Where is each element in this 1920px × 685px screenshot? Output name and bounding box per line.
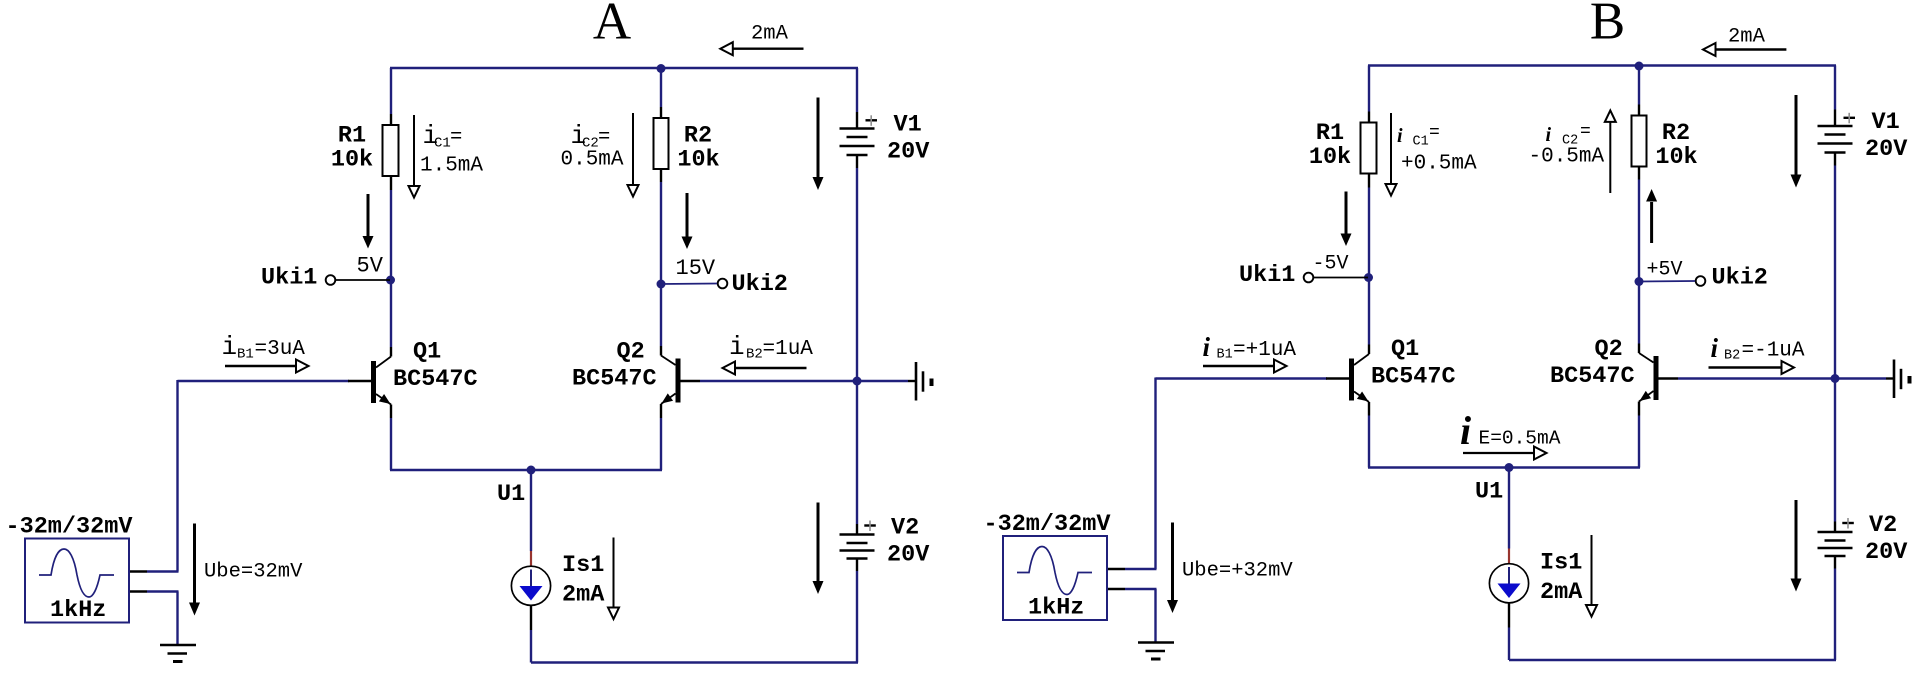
- svg-text:-5V: -5V: [1313, 253, 1349, 276]
- battery V1 (B): [1818, 125, 1853, 128]
- resistor R2 (B): [1632, 116, 1647, 167]
- svg-text:E=0.5mA: E=0.5mA: [1479, 428, 1561, 450]
- ground (signal source) (B): [1138, 641, 1174, 644]
- arrow: iC2 up (B): [1609, 123, 1611, 194]
- node Uki1 terminal circle (A): [326, 275, 336, 285]
- battery V2 (B): [1818, 531, 1853, 534]
- arrow: Ube (A): [193, 524, 196, 604]
- battery V1 (A): [840, 127, 875, 130]
- svg-text:R1: R1: [338, 123, 366, 150]
- svg-text:BC547C: BC547C: [393, 366, 478, 393]
- wire: base line left (A): [178, 380, 350, 382]
- wire: U1 node to current source (A): [530, 470, 532, 551]
- svg-text:2mA: 2mA: [1728, 26, 1766, 49]
- arrow: V1 branch current (A): [817, 98, 820, 178]
- arrow: iB1 (A): [225, 365, 296, 367]
- arrow: iC1 (A): [413, 115, 415, 186]
- node Uki1 terminal circle (B): [1304, 273, 1314, 283]
- wire: top rail (A): [390, 67, 858, 69]
- wire: emitter rail (B): [1368, 466, 1640, 468]
- battery V2 (A): [840, 533, 875, 536]
- sine voltage source box (A): [25, 539, 129, 623]
- node Uki2 terminal circle (B): [1696, 276, 1706, 286]
- arrow: R1 voltage 5V (A): [367, 194, 370, 237]
- node Uki1 junction (B): [1364, 273, 1373, 282]
- wire: right rail V1-to-ground node (A): [856, 156, 858, 168]
- svg-text:-32m/32mV: -32m/32mV: [984, 511, 1112, 538]
- wire: R1 to collector node (B): [1368, 174, 1370, 188]
- svg-text:1kHz: 1kHz: [1028, 595, 1084, 622]
- arrow: iE (B): [1463, 452, 1533, 454]
- svg-text:BC547C: BC547C: [572, 366, 657, 393]
- arrow: Is1 current (A): [613, 538, 615, 608]
- svg-text:1kHz: 1kHz: [50, 597, 106, 624]
- svg-text:1.5mA: 1.5mA: [420, 155, 483, 178]
- wire: top rail (B): [1368, 64, 1836, 66]
- wire: base line right (Q2 to ground) (A): [680, 380, 700, 382]
- arrow: 2mA supply current (A): [733, 48, 804, 50]
- svg-text:C1: C1: [434, 136, 451, 152]
- battery V2 plus sign (B): [1842, 522, 1854, 524]
- svg-text:i: i: [1546, 124, 1552, 146]
- svg-text:=3uA: =3uA: [255, 338, 306, 361]
- wire: bottom rail (A): [531, 661, 858, 663]
- svg-text:=: =: [598, 126, 610, 149]
- wire: source top terminal to base (A): [129, 570, 147, 572]
- svg-text:-32m/32mV: -32m/32mV: [6, 514, 134, 541]
- arrow: Is1 current (B): [1591, 535, 1593, 605]
- wire: U1 node to current source (B): [1508, 468, 1510, 549]
- svg-text:5V: 5V: [357, 254, 384, 279]
- svg-text:C1: C1: [1413, 135, 1429, 150]
- svg-text:Is1: Is1: [562, 552, 604, 579]
- wire: source bottom terminal to ground (A): [129, 590, 147, 592]
- wire: Q2 emitter down (A): [660, 404, 662, 418]
- svg-text:15V: 15V: [676, 256, 716, 281]
- svg-text:=: =: [1580, 122, 1591, 142]
- svg-text:B2: B2: [1724, 349, 1740, 364]
- svg-text:U1: U1: [1475, 479, 1503, 506]
- wire: R2 to collector node (A): [660, 169, 662, 182]
- resistor R1 (B): [1361, 123, 1377, 174]
- ground (base reference, right) (B): [1893, 360, 1896, 399]
- svg-text:A: A: [593, 0, 631, 51]
- wire: R1 to collector node (A): [390, 176, 392, 190]
- wire: right rail lower (A): [856, 559, 858, 572]
- junction node: top rail / R2 (A): [657, 64, 666, 73]
- node: base/ground junction (B): [1831, 374, 1840, 383]
- svg-text:+0.5mA: +0.5mA: [1401, 153, 1477, 176]
- current source Is1 (A): [511, 566, 550, 605]
- wire: Uki1 stub (A): [336, 279, 390, 281]
- svg-text:V1: V1: [894, 112, 922, 139]
- sine wave symbol (A): [39, 549, 114, 597]
- svg-text:Uki1: Uki1: [1239, 262, 1295, 289]
- svg-text:B: B: [1590, 0, 1625, 51]
- svg-text:Q1: Q1: [413, 339, 441, 366]
- arrow: 2mA supply current (B): [1717, 48, 1787, 50]
- svg-text:V2: V2: [1869, 512, 1897, 539]
- node Uki1 junction (A): [386, 276, 395, 285]
- arrow: iC2 (A): [632, 113, 634, 185]
- svg-text:Q1: Q1: [1391, 336, 1419, 363]
- svg-text:20V: 20V: [887, 139, 930, 166]
- wire: R2 to collector node (B): [1638, 167, 1640, 180]
- svg-text:i: i: [729, 332, 745, 362]
- wire: R2 branch upper (A): [660, 68, 662, 107]
- svg-text:V2: V2: [891, 515, 919, 542]
- node U1 junction (A): [527, 466, 536, 475]
- wire: current source to bottom rail (B): [1508, 602, 1510, 628]
- svg-text:i: i: [222, 332, 238, 362]
- svg-text:Ube=+32mV: Ube=+32mV: [1182, 560, 1293, 583]
- svg-text:i: i: [1460, 408, 1471, 453]
- arrow: iB2 (A): [735, 367, 807, 369]
- svg-text:R2: R2: [684, 123, 712, 150]
- battery V1 plus sign (A): [866, 119, 878, 121]
- svg-text:=-1uA: =-1uA: [1742, 340, 1805, 363]
- svg-text:Uki2: Uki2: [732, 271, 788, 298]
- battery V2 plus sign (A): [864, 524, 876, 526]
- junction node: top rail / R2 (B): [1635, 62, 1644, 71]
- resistor R1 (A): [383, 125, 399, 176]
- transistor Q1 (B): [1349, 359, 1354, 401]
- svg-text:i: i: [1203, 332, 1211, 362]
- svg-text:10k: 10k: [677, 147, 719, 174]
- arrow: iB2 (B): [1709, 366, 1782, 368]
- svg-text:=: =: [450, 126, 462, 149]
- arrow: R2 voltage 15V (A): [686, 193, 689, 237]
- transistor Q2 (B): [1654, 356, 1659, 400]
- svg-text:=1uA: =1uA: [763, 338, 814, 361]
- wire: base line right (Q2 to ground) (B): [1658, 377, 1678, 379]
- svg-text:Q2: Q2: [617, 339, 645, 366]
- svg-text:0.5mA: 0.5mA: [561, 149, 624, 172]
- svg-text:R1: R1: [1316, 120, 1344, 147]
- svg-text:i: i: [1711, 333, 1719, 363]
- svg-text:B2: B2: [746, 347, 763, 363]
- svg-text:Uki1: Uki1: [261, 265, 317, 292]
- sine voltage source box (B): [1003, 536, 1107, 620]
- wire: right rail upper (A): [856, 68, 858, 112]
- svg-text:+5V: +5V: [1647, 259, 1683, 282]
- svg-text:B1: B1: [1217, 348, 1233, 363]
- svg-text:=+1uA: =+1uA: [1233, 339, 1296, 362]
- svg-text:R2: R2: [1662, 120, 1690, 147]
- wire: right rail ground-to-V2 (B): [1834, 379, 1836, 522]
- arrow: V2 branch current (A): [817, 503, 820, 582]
- wire: R2 branch upper (B): [1638, 66, 1640, 105]
- wire: Q1 emitter down (B): [1368, 402, 1370, 416]
- svg-text:-0.5mA: -0.5mA: [1529, 146, 1605, 169]
- battery V1 plus sign (B): [1844, 117, 1856, 119]
- arrow: iB1 (B): [1203, 365, 1274, 367]
- wire: Uki2 stub (A): [661, 283, 717, 286]
- transistor Q1 (A): [371, 361, 376, 403]
- wire: base line left (B): [1156, 377, 1328, 379]
- svg-text:10k: 10k: [331, 147, 373, 174]
- node Uki2 junction (B): [1635, 277, 1644, 286]
- arrow: V1 branch current (B): [1795, 95, 1798, 175]
- wire: R1 branch upper (A): [390, 68, 392, 114]
- arrow: iC1 (B): [1390, 113, 1392, 184]
- svg-text:BC547C: BC547C: [1371, 364, 1456, 391]
- svg-text:i: i: [1397, 125, 1403, 147]
- node U1 junction (B): [1505, 463, 1514, 472]
- svg-text:BC547C: BC547C: [1550, 363, 1635, 390]
- ground (signal source) (A): [160, 644, 196, 647]
- svg-text:10k: 10k: [1655, 144, 1697, 171]
- svg-text:20V: 20V: [1865, 136, 1908, 163]
- wire: right rail V1-to-ground node (B): [1834, 154, 1836, 166]
- sine wave symbol (B): [1017, 547, 1092, 595]
- arrow: R1 voltage (B): [1345, 192, 1348, 235]
- resistor R2 (A): [654, 118, 669, 169]
- node: base/ground junction (A): [853, 377, 862, 386]
- wire: Q1 emitter down (A): [390, 405, 392, 419]
- svg-text:=: =: [1429, 123, 1440, 143]
- wire: Q2 emitter down (B): [1638, 402, 1640, 416]
- svg-text:20V: 20V: [887, 542, 930, 569]
- svg-text:U1: U1: [497, 481, 525, 508]
- svg-text:2mA: 2mA: [562, 582, 605, 609]
- svg-text:Ube=32mV: Ube=32mV: [204, 561, 303, 584]
- wire: right rail upper (B): [1834, 66, 1836, 110]
- wire: current source to bottom rail (A): [530, 605, 532, 631]
- svg-text:Uki2: Uki2: [1712, 265, 1768, 292]
- svg-text:Is1: Is1: [1540, 550, 1582, 577]
- node Uki2 terminal circle (A): [718, 279, 728, 289]
- wire: R1 branch upper (B): [1368, 66, 1370, 112]
- svg-text:2mA: 2mA: [1540, 579, 1583, 606]
- wire: source top terminal to base (B): [1107, 568, 1125, 570]
- svg-text:Q2: Q2: [1595, 336, 1623, 363]
- wire: bottom rail (B): [1509, 659, 1836, 661]
- wire: right rail ground-to-V2 (A): [856, 381, 858, 524]
- arrow: V2 branch current (B): [1795, 500, 1798, 579]
- wire: Uki1 stub (B): [1314, 277, 1368, 279]
- wire: source bottom terminal to ground (B): [1107, 588, 1125, 590]
- ground (base reference, right) (A): [915, 362, 918, 401]
- svg-text:V1: V1: [1872, 109, 1900, 136]
- wire: emitter rail (A): [390, 469, 662, 471]
- svg-text:20V: 20V: [1865, 539, 1908, 566]
- node Uki2 junction (A): [657, 280, 666, 289]
- svg-text:B1: B1: [237, 347, 254, 363]
- svg-text:10k: 10k: [1309, 144, 1351, 171]
- current source Is1 (B): [1489, 564, 1528, 603]
- arrow: R2 voltage up (B): [1650, 202, 1653, 243]
- svg-text:2mA: 2mA: [751, 23, 789, 46]
- arrow: Ube (B): [1171, 523, 1174, 601]
- transistor Q2 (A): [676, 359, 681, 403]
- wire: right rail lower (B): [1834, 556, 1836, 569]
- wire: Uki2 stub (B): [1639, 280, 1695, 283]
